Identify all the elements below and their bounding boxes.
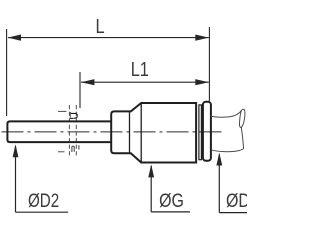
svg-text:ØG: ØG bbox=[159, 190, 184, 212]
svg-text:ØD: ØD bbox=[226, 190, 247, 212]
svg-text:ØD2: ØD2 bbox=[28, 189, 59, 211]
svg-text:L: L bbox=[95, 14, 104, 37]
svg-text:L1: L1 bbox=[131, 57, 149, 80]
